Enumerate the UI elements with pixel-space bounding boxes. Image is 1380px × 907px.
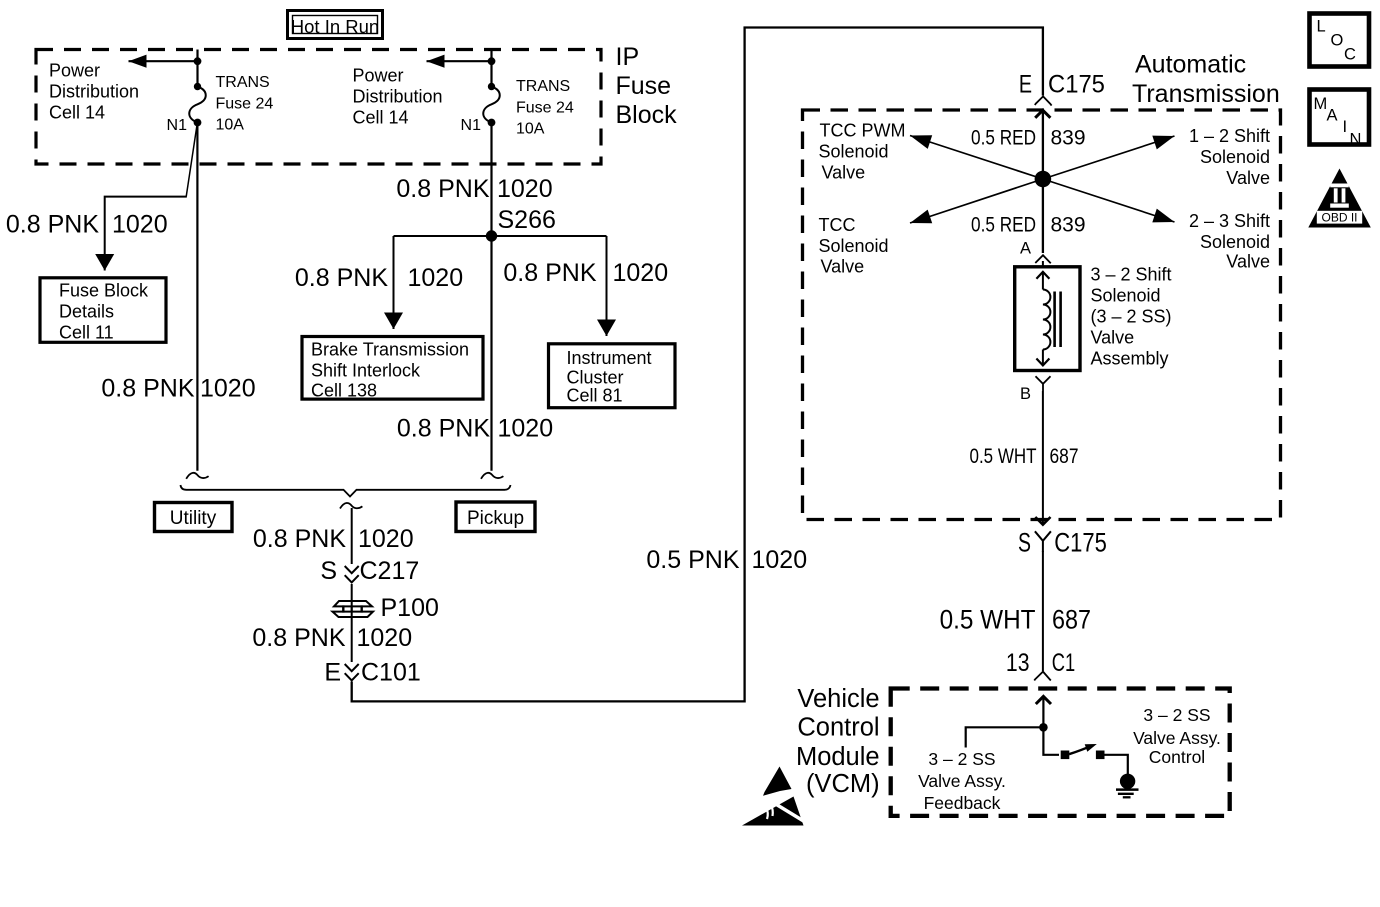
svg-text:(3 – 2 SS): (3 – 2 SS) [1091,307,1172,327]
arrow to Power Distribution (left) [129,60,198,62]
svg-text:C175: C175 [1048,71,1105,99]
OBD II triangle icon [1308,169,1371,228]
svg-text:Assembly: Assembly [1091,349,1169,369]
ESD sensitive device symbol [742,767,806,826]
wire label 0.5 PNK 1020 [646,546,807,574]
splice S266 junction dot [486,230,497,241]
svg-text:E: E [1019,70,1032,98]
svg-text:0.8 PNK: 0.8 PNK [295,264,388,292]
svg-text:C: C [1344,46,1356,64]
3-2 Shift Solenoid (3-2 SS) Valve Assembly label [1091,265,1172,369]
svg-text:Feedback: Feedback [924,793,1001,813]
svg-text:1020: 1020 [200,375,256,403]
svg-text:Details: Details [59,302,114,322]
arrow to 2-3 Shift Solenoid Valve [1043,179,1175,222]
svg-text:TRANS: TRANS [516,78,570,95]
arrow to TCC Solenoid Valve [910,179,1043,223]
fuse F24 (left) TRANS fuse symbol [189,83,206,127]
svg-text:Valve Assy.: Valve Assy. [1133,728,1221,748]
wire: right main vertical from N1 to S266 and below [490,123,492,471]
svg-text:Distribution: Distribution [353,87,443,107]
connector C175 pin S labels [1018,528,1107,558]
svg-text:Pickup: Pickup [467,508,524,529]
wire: right fuse feed from top border [490,50,492,89]
Instrument Cluster Cell 81 box [549,344,676,408]
pass-through grommet P100 symbol [333,601,374,617]
pin A chevron [1035,255,1051,263]
fuse label TRANS Fuse 24 10A (right) [516,78,574,138]
3-2 Shift Solenoid valve assembly box [1015,267,1080,371]
Vehicle Control Module (VCM) label [796,685,880,798]
svg-text:Solenoid: Solenoid [819,236,889,256]
ground symbol [1116,774,1139,798]
Power Distribution Cell 14 label (left) [49,61,139,123]
svg-text:Control: Control [1149,747,1205,767]
arrow inside VCM (up, open head) [1036,696,1051,727]
svg-text:3 – 2 SS: 3 – 2 SS [1143,705,1210,725]
wire: center drop from brace [351,508,353,564]
wire: between C217 and P100 [351,584,353,662]
svg-text:Solenoid: Solenoid [819,142,889,162]
svg-text:Cell 11: Cell 11 [59,323,114,343]
svg-text:3 – 2 SS: 3 – 2 SS [928,749,995,769]
svg-text:Module: Module [796,743,880,771]
wire: branch to Brake Transmission Shift Interlock [393,236,395,329]
svg-text:Shift Interlock: Shift Interlock [311,361,421,381]
svg-text:M: M [1314,95,1328,113]
wire break symbol (below brace) [340,503,362,509]
svg-text:Solenoid: Solenoid [1091,286,1161,306]
svg-text:839: 839 [1051,127,1086,150]
wire label 0.5 RED 839 (upper) [971,127,1086,150]
svg-text:N: N [1350,131,1362,149]
svg-text:Transmission: Transmission [1132,80,1280,108]
Fuse Block Details Cell 11 box [40,278,166,343]
svg-text:Fuse Block: Fuse Block [59,281,149,301]
svg-text:0.5 RED: 0.5 RED [971,214,1036,237]
wire: feedback branch [966,727,1044,747]
svg-text:C175: C175 [1054,529,1107,558]
svg-text:Fuse 24: Fuse 24 [216,96,274,113]
wire: left main vertical from N1 [196,123,198,471]
svg-text:C1: C1 [1052,648,1075,677]
svg-text:Fuse: Fuse [616,72,672,100]
IP Fuse Block label [616,43,678,129]
MAIN reference box [1310,90,1370,149]
svg-text:0.5 RED: 0.5 RED [971,127,1036,150]
svg-text:687: 687 [1052,605,1091,635]
svg-text:C217: C217 [360,557,420,585]
svg-text:Solenoid: Solenoid [1200,147,1270,167]
pin B chevron [1036,376,1051,391]
svg-text:839: 839 [1051,214,1086,237]
connector C217 labels [320,557,419,585]
fuse label TRANS Fuse 24 10A (left) [216,74,274,134]
svg-text:Valve: Valve [1226,168,1270,188]
svg-text:2 – 3 Shift: 2 – 3 Shift [1189,211,1270,231]
splice junction inside transmission [1035,171,1052,188]
IP Fuse Block dashed box [36,50,601,165]
junction at left fuse input [194,57,202,65]
svg-text:Valve Assy.: Valve Assy. [918,771,1006,791]
svg-text:Utility: Utility [170,508,217,529]
brace joining Utility and Pickup wires [181,485,511,497]
TCC PWM Solenoid Valve label [819,121,906,183]
svg-text:Vehicle: Vehicle [797,685,879,713]
svg-text:L: L [1317,18,1326,36]
wire: long run from C101 to C175 (left, bottom, riser, top) [352,28,1043,702]
Pickup box [456,502,535,532]
svg-text:13: 13 [1006,648,1030,676]
arrow head leaving transmission (down, open) [1035,517,1050,525]
wire label 0.8 PNK 1020 (BTSI branch) [295,264,463,292]
wire break symbol (right) [481,473,503,479]
svg-text:Brake Transmission: Brake Transmission [311,340,469,360]
svg-text:0.8 PNK: 0.8 PNK [503,259,596,287]
svg-text:1020: 1020 [498,415,554,443]
connector C175 pin E labels [1019,70,1105,98]
wire: junction down to switch [1043,727,1059,755]
wire label 0.8 PNK 1020 (above S266) [396,175,552,203]
wire label 0.8 PNK 1020 (at P100) [252,624,412,652]
wire: left fuse feed from top border [196,50,198,89]
wire: branch to Instrument Cluster [606,236,608,336]
3-2 SS Valve Assy. Feedback label [918,749,1006,813]
svg-text:Valve: Valve [1091,328,1135,348]
svg-text:Cell 81: Cell 81 [567,386,623,406]
svg-text:O: O [1331,32,1344,50]
junction at right fuse input [488,57,496,65]
svg-text:1020: 1020 [613,259,669,287]
TCC Solenoid Valve label [819,215,889,277]
switch contact (left) [1061,751,1070,760]
svg-text:Hot In Run: Hot In Run [291,16,379,37]
connector C101 pin E chevrons [345,664,359,680]
svg-text:0.8 PNK: 0.8 PNK [396,175,489,203]
svg-text:1020: 1020 [112,211,168,239]
connector C175 pin S chevron [1035,531,1051,552]
svg-text:Valve: Valve [821,257,865,277]
fuse F24 (right) TRANS fuse symbol [483,83,500,127]
connector C1 pin 13 chevron [1034,672,1051,681]
connector C175 pin E chevron [1035,96,1052,105]
svg-text:TRANS: TRANS [216,74,270,91]
arrow into transmission (up, open head) [1035,110,1050,179]
svg-text:Power: Power [353,66,404,86]
svg-text:687: 687 [1050,446,1079,469]
svg-text:Block: Block [616,101,678,129]
wire: switch to ground [1104,755,1128,775]
svg-text:P100: P100 [381,594,439,622]
wire label 0.8 PNK 1020 (branch) [6,211,168,239]
svg-text:TCC: TCC [819,215,856,235]
svg-text:10A: 10A [516,121,545,138]
svg-text:Fuse 24: Fuse 24 [516,100,574,117]
wire: S266 horizontal branch [394,235,607,237]
wire label 0.8 PNK 1020 (cluster branch) [503,259,668,287]
svg-text:Distribution: Distribution [49,82,139,102]
3-2 SS Valve Assy. Control label [1133,705,1221,767]
switch contact (right) [1096,751,1105,760]
svg-text:B: B [1020,385,1031,403]
wire label 0.8 PNK 1020 (left main) [101,375,255,403]
svg-text:Control: Control [797,714,879,742]
wire label 0.8 PNK 1020 (below S266) [397,415,553,443]
svg-text:0.5 PNK: 0.5 PNK [646,546,739,574]
wire: C175 to C1 [1042,551,1044,671]
svg-text:Valve: Valve [1226,252,1270,272]
svg-text:C101: C101 [361,659,421,687]
connector C1 pin 13 labels [1006,648,1075,677]
svg-text:Solenoid: Solenoid [1200,232,1270,252]
svg-text:0.8 PNK: 0.8 PNK [101,375,194,403]
Automatic Transmission title [1132,51,1280,109]
svg-text:E: E [324,659,341,687]
svg-text:1020: 1020 [752,546,808,574]
svg-text:Automatic: Automatic [1135,51,1246,79]
switch blade with arrow [1069,744,1097,754]
svg-text:N1: N1 [167,117,188,134]
svg-text:I: I [1343,118,1348,136]
wire: pin B down to C175 [1042,391,1044,523]
connector C217 pin S chevrons [345,566,359,582]
wire label 0.5 WHT 687 (below C175) [940,605,1091,635]
svg-text:1020: 1020 [357,624,413,652]
arrow to TCC PWM Solenoid Valve [910,136,1043,180]
svg-text:Cluster: Cluster [567,368,624,388]
svg-text:S266: S266 [498,206,556,234]
svg-text:N1: N1 [461,117,482,134]
svg-text:S: S [320,557,337,585]
svg-text:S: S [1018,528,1031,558]
wire: diagonal branch from N1 [186,125,197,197]
Utility box [155,503,233,532]
svg-text:Cell 14: Cell 14 [49,103,105,123]
svg-text:0.8 PNK: 0.8 PNK [6,211,99,239]
svg-text:Cell 14: Cell 14 [353,108,409,128]
Power Distribution Cell 14 label (right) [353,66,443,128]
svg-text:Instrument: Instrument [567,348,652,368]
wire: chevron A to solenoid box [1042,261,1044,267]
svg-text:10A: 10A [216,117,245,134]
LOC reference box [1310,14,1370,67]
svg-text:OBD II: OBD II [1321,211,1357,225]
wire: branch to Fuse Block Details [105,197,187,271]
arrow to Power Distribution (right) [427,60,492,62]
svg-text:Valve: Valve [822,163,866,183]
Vehicle Control Module dashed box [891,689,1230,816]
svg-text:(VCM): (VCM) [806,770,880,798]
svg-text:3 – 2 Shift: 3 – 2 Shift [1091,265,1172,285]
svg-text:1020: 1020 [408,264,464,292]
2-3 Shift Solenoid Valve label [1189,211,1270,272]
svg-text:Cell 138: Cell 138 [311,381,377,401]
svg-text:A: A [1327,107,1338,125]
Hot In Run power feed box [288,11,383,39]
svg-text:0.5 WHT: 0.5 WHT [969,445,1036,468]
svg-text:Power: Power [49,61,100,81]
svg-text:A: A [1020,240,1031,258]
1-2 Shift Solenoid Valve label [1189,126,1270,188]
svg-text:1 – 2 Shift: 1 – 2 Shift [1189,126,1270,146]
wire label 0.8 PNK 1020 (below brace) [253,525,414,553]
svg-text:IP: IP [616,43,640,71]
arrow to 1-2 Shift Solenoid Valve [1043,136,1175,179]
wire break symbol (left) [186,473,208,479]
svg-text:1020: 1020 [497,175,553,203]
svg-text:0.5 WHT: 0.5 WHT [940,605,1036,634]
svg-text:TCC PWM: TCC PWM [820,121,906,141]
wire: down from junction to pin A [1042,179,1044,253]
svg-text:1020: 1020 [358,525,414,553]
connector C101 labels [324,659,420,687]
wire label 0.5 RED 839 (lower) [971,214,1086,237]
svg-text:0.8 PNK: 0.8 PNK [397,415,490,443]
Brake Transmission Shift Interlock Cell 138 box [302,337,483,401]
junction inside VCM [1039,723,1048,732]
wire label 0.5 WHT 687 (inside transmission) [969,445,1078,468]
svg-text:0.8 PNK: 0.8 PNK [253,525,346,553]
solenoid coil with core (inside box) [1036,272,1060,366]
Automatic Transmission dashed box [803,110,1281,520]
svg-text:0.8 PNK: 0.8 PNK [252,624,345,652]
